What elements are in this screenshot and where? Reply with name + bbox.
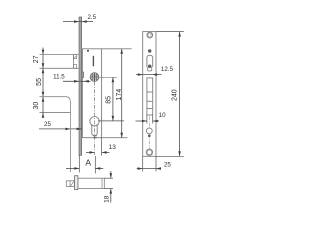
svg-text:25: 25	[44, 121, 51, 128]
extension line at 30-chain bottom	[40, 112, 71, 114]
cylinder cam box	[66, 181, 74, 187]
svg-text:55: 55	[36, 78, 43, 86]
euro cylinder cut-out (side view)	[90, 117, 99, 126]
screw dot in case top	[87, 50, 89, 52]
top box inner edge and notches	[73, 55, 75, 69]
chained dims 27 / 55 / 30 (left)	[42, 48, 44, 118]
dot above latch opening	[148, 49, 151, 52]
svg-text:11.5: 11.5	[53, 74, 65, 81]
door profile edge (rounded corner)	[40, 97, 71, 172]
svg-text:174: 174	[116, 89, 123, 101]
top box lower line	[40, 67, 79, 69]
cylinder centre extension line	[98, 120, 124, 122]
fixing lug on faceplate back	[82, 72, 84, 78]
svg-text:240: 240	[172, 89, 179, 101]
case top extension line	[102, 48, 132, 50]
marks below cylinder cut-out	[93, 135, 96, 137]
svg-text:27: 27	[33, 55, 40, 63]
latch tab	[148, 67, 152, 71]
svg-text:30: 30	[33, 102, 40, 110]
dim 174 (case height)	[121, 49, 123, 138]
svg-text:A: A	[85, 158, 91, 168]
dim A (backset designation)	[78, 155, 80, 173]
slot below case top	[92, 56, 94, 66]
hub horizontal centreline	[90, 76, 118, 78]
vertical dash-dot centreline through hub and cylinder	[93, 82, 95, 156]
svg-text:25: 25	[164, 161, 171, 168]
top box upper line	[40, 54, 79, 56]
dim 240 (faceplate height)	[156, 31, 184, 33]
dim 25 (faceplate width)	[142, 156, 144, 171]
dim 85 (hub to cylinder centre)	[112, 77, 114, 121]
svg-text:18: 18	[103, 195, 110, 203]
dim 10 (slot width)	[146, 115, 148, 124]
dim 13 (cylinder centre to case back)	[101, 138, 103, 156]
svg-text:10: 10	[159, 112, 166, 119]
svg-text:85: 85	[105, 96, 112, 104]
dim 2.5 (faceplate thickness)	[63, 21, 93, 23]
faceplate centreline segments	[149, 117, 151, 128]
svg-text:12.5: 12.5	[161, 66, 174, 73]
faceplate (front view)	[143, 32, 156, 157]
deadbolt opening with laminated bolt	[147, 78, 153, 115]
cylinder hole (front view)	[146, 128, 152, 134]
faceplate (side view, vertical strip)	[79, 17, 82, 155]
dim 12.5	[136, 74, 162, 76]
case bottom extension line	[102, 137, 128, 139]
latch opening	[147, 55, 153, 67]
svg-text:2.5: 2.5	[87, 14, 96, 21]
cylinder flange	[75, 176, 78, 190]
dim 18 (cylinder body height)	[104, 177, 113, 179]
cylinder body	[78, 178, 104, 188]
lock case outline (side view)	[83, 49, 102, 138]
svg-text:13: 13	[109, 144, 117, 151]
bottom screw hole	[147, 149, 153, 155]
top screw hole	[147, 32, 153, 38]
follower hub (circle with cross-hatch)	[90, 73, 99, 82]
